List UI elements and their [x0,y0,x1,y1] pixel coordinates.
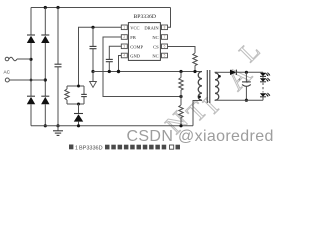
wire [17,58,31,60]
svg-text:3: 3 [123,45,125,49]
diode D6 output [230,70,236,75]
node output cap top [245,71,248,74]
svg-text:1: 1 [75,145,78,151]
svg-text:2: 2 [123,35,125,39]
pin numbers [123,26,165,58]
diode D1 [27,35,35,43]
pin 4 box [121,53,127,58]
wire [30,104,32,126]
diode D4 [41,96,49,104]
gnd bus L1 wire [93,71,202,73]
signal ground arrow [90,72,97,88]
svg-text:NC: NC [152,54,158,59]
pin 2 box [121,35,127,40]
node L1/GND [117,70,120,73]
node L1/C4 [108,70,111,73]
COMP wire + capacitor C4 [106,46,122,71]
dashed wire [262,83,264,93]
LED string [260,72,271,100]
pin 1 box [121,25,127,30]
bulk capacitor C1 column [57,8,59,65]
AC terminal 2 [5,78,9,82]
GND pin wire [119,56,122,72]
svg-text:1: 1 [123,26,125,30]
transformer core [206,70,208,103]
svg-text:VCC: VCC [130,25,139,30]
svg-text:CSDN @xiaoredred: CSDN @xiaoredred [127,128,274,145]
DRAIN wire [168,8,171,28]
node bottom rail/column2 [44,124,47,127]
diode D5 [74,104,83,126]
wire [44,104,46,126]
resistor R1 / capacitor C3 parallel network [65,85,87,106]
capacitor C2 (VCC) [90,27,97,71]
fuse F1 [9,57,17,60]
svg-text:GND: GND [130,54,140,59]
node AC1/column1 [29,58,32,61]
wire [44,43,46,96]
CS wire [168,47,196,54]
output bottom wire [217,99,263,101]
svg-text:NC: NC [152,35,158,40]
svg-text:BP3336D: BP3336D [134,14,156,20]
wire [9,79,45,81]
wire bridge column 2 [44,8,46,36]
FB wire [103,37,181,97]
svg-text:+: + [238,77,241,82]
svg-text:6: 6 [164,45,166,49]
pin 6 box [162,44,168,49]
svg-text:4: 4 [123,54,125,58]
op IC U1 BP3336D [121,14,167,60]
svg-text:DRAIN: DRAIN [144,25,159,30]
wire [57,67,59,126]
pin 7 box [162,35,168,40]
diode D2 [41,35,49,43]
transformer T1 primary winding [198,72,202,101]
capacitor C1 [55,64,62,67]
LED1 [260,73,266,77]
ground [53,126,63,136]
resistor R2 (CS) [193,53,197,66]
svg-text:5: 5 [164,54,166,58]
bottom rail wire [31,125,193,127]
wire VCC feed [79,27,122,86]
node AC2 crossing [30,79,33,82]
node bottom rail/C1 [56,124,59,127]
LED3 [260,93,266,97]
svg-text:COMP: COMP [130,44,143,49]
watermark diagonal letters [160,36,266,140]
pin 5 box [162,53,168,58]
wire bridge column 1 [30,8,32,36]
diode D3 [27,96,35,104]
node FB divider [179,95,182,98]
transformer T1 secondary winding [215,72,221,100]
caption 图1 BP3336D [69,145,180,152]
pin 8 box [162,25,168,30]
resistor R4 (FB lower) [179,97,183,128]
node VCC/C2 [91,26,94,29]
svg-text:CS: CS [153,44,159,49]
capacitor C5 output electrolytic [238,72,251,100]
node L1 left end [91,70,94,73]
node L1/R2 [193,70,196,73]
node AC2/column2 [44,78,47,81]
node bottom rail/D5 [77,124,80,127]
top rail wire [31,7,171,9]
resistor R3 (FB upper) [179,70,183,97]
wire [236,71,263,73]
wire primary return [193,101,202,126]
AC terminal 1 [5,57,9,61]
wire [30,43,32,96]
svg-text:AC: AC [4,70,11,75]
output top wire [217,71,230,73]
LED2 [260,78,266,82]
node top rail / bulk cap [56,6,59,9]
svg-text:BP3336D: BP3336D [79,145,103,151]
svg-text:FB: FB [130,35,136,40]
svg-text:7: 7 [164,35,166,39]
node output cap bottom [245,99,248,102]
pin 3 box [121,44,127,49]
node top rail / column2 [44,6,47,9]
svg-text:8: 8 [164,26,166,30]
